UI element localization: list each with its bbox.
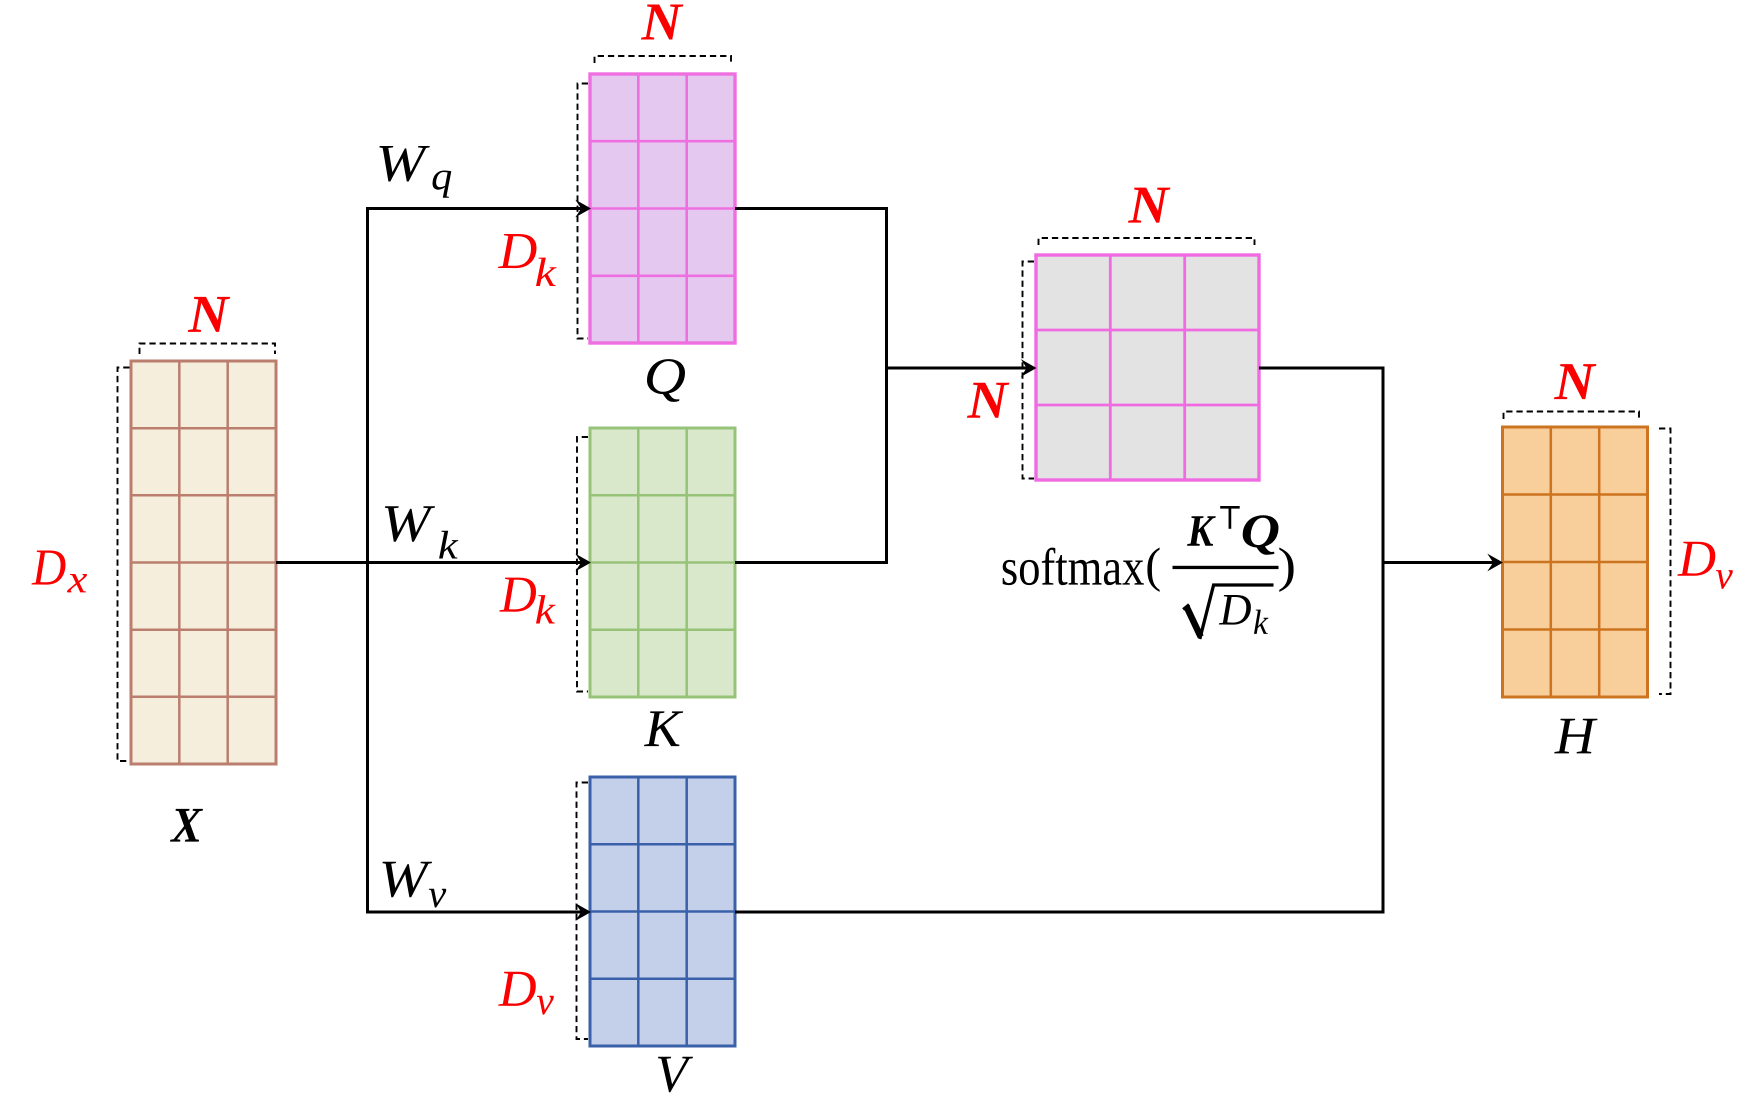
matrix A [1036, 255, 1259, 480]
bracket N left of A [1023, 262, 1035, 479]
bracket Dk left of Q [578, 84, 589, 339]
label Dv of V [498, 972, 536, 1006]
arrowhead into K [575, 554, 591, 572]
label X [170, 809, 203, 842]
formula numerator Q [1243, 515, 1279, 555]
label V [658, 1057, 693, 1093]
wire V out [735, 911, 1385, 914]
wire K out [735, 561, 888, 564]
formula close paren [1279, 548, 1293, 592]
bracket Dx left of X [118, 368, 130, 762]
wire into A [887, 367, 1028, 370]
label N over H [1554, 364, 1596, 399]
bracket Dv left of V [577, 783, 589, 1040]
bracket Dv right of H [1659, 429, 1671, 695]
formula softmax [1003, 548, 1144, 586]
label H [1554, 719, 1597, 754]
bracket N over X [140, 344, 276, 355]
arrowhead into Q [575, 200, 591, 218]
wire mid vertical [885, 207, 888, 564]
bracket N over A [1039, 238, 1255, 245]
label K [644, 711, 683, 746]
matrix K [590, 428, 735, 697]
formula denominator k [1254, 610, 1268, 634]
label Wk [385, 506, 435, 542]
wire X out [276, 561, 581, 564]
bracket N over Q [595, 56, 732, 63]
label Dk of Q [498, 234, 537, 268]
label Dv of H [1677, 542, 1715, 576]
wire right vertical [1382, 367, 1385, 914]
wire trunk vertical [366, 207, 369, 912]
matrix H [1503, 427, 1648, 697]
matrix X [131, 361, 276, 764]
formula numerator K [1187, 516, 1216, 546]
label Dk of K [499, 578, 536, 612]
wire Q out [735, 207, 888, 210]
wire Wq [366, 207, 581, 210]
label Wv [382, 862, 432, 898]
label N over A [1128, 188, 1170, 223]
arrowhead into A [1021, 359, 1037, 377]
wire into H [1383, 561, 1494, 564]
label N over Q [641, 5, 683, 40]
formula fraction bar [1173, 566, 1279, 569]
arrowhead into H [1487, 554, 1503, 572]
arrowhead into V [575, 903, 591, 921]
bracket N over H [1504, 412, 1640, 420]
matrix V [590, 777, 735, 1046]
formula open paren [1147, 548, 1159, 592]
label Wq [379, 146, 429, 182]
label N over X [188, 297, 230, 332]
formula denominator D [1219, 595, 1251, 625]
matrix Q [590, 74, 735, 343]
wire A out [1259, 367, 1385, 370]
wire Wv [366, 911, 581, 914]
label Dx [32, 551, 66, 585]
formula transpose T [1220, 507, 1240, 529]
label N left of A [967, 383, 1009, 418]
label Q [647, 359, 685, 402]
bracket Dk left of K [577, 437, 588, 692]
formula radical [1183, 605, 1189, 610]
